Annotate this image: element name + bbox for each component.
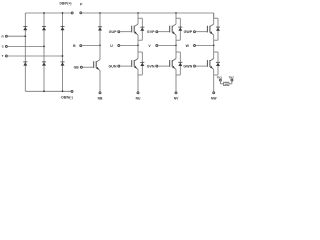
svg-text:NU: NU (136, 96, 141, 100)
svg-text:T: T (2, 54, 4, 58)
svg-text:DB/P(+): DB/P(+) (60, 2, 72, 6)
svg-text:NW: NW (211, 96, 217, 100)
svg-text:S: S (2, 45, 4, 49)
svg-text:GVN: GVN (147, 65, 155, 69)
svg-text:DB/N(-): DB/N(-) (61, 95, 72, 99)
svg-text:GUN: GUN (109, 65, 117, 69)
svg-text:GB: GB (74, 66, 80, 70)
svg-text:NB: NB (98, 96, 103, 100)
svg-text:GVP: GVP (147, 30, 155, 34)
svg-text:TH1: TH1 (217, 76, 223, 80)
svg-text:GWP: GWP (184, 30, 193, 34)
svg-text:NV: NV (174, 96, 179, 100)
svg-text:GUP: GUP (109, 30, 117, 34)
svg-text:GWN: GWN (183, 65, 192, 69)
